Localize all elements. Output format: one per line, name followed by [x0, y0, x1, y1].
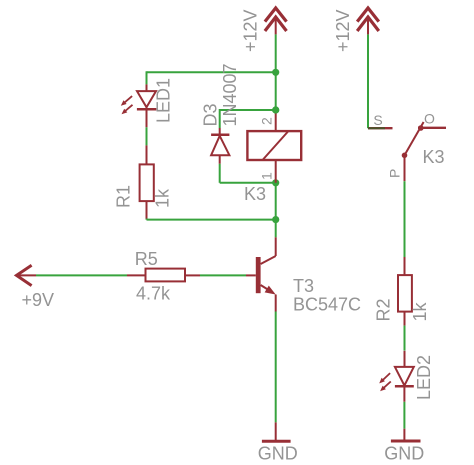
svg-text:R5: R5 — [135, 249, 158, 269]
wire D3 bottom horizontal — [220, 182, 276, 184]
svg-text:K3: K3 — [244, 184, 266, 204]
svg-text:P: P — [387, 169, 403, 178]
relay contact K3 (S/O/P) — [368, 122, 446, 181]
wire collector — [275, 220, 277, 238]
resistor R2 — [398, 257, 412, 326]
wire LED1 to R1 — [146, 127, 148, 145]
junction D3 node overdraw — [272, 106, 279, 113]
wire +9V to R5 — [36, 274, 127, 276]
svg-text:T3: T3 — [293, 276, 314, 296]
svg-text:2: 2 — [259, 117, 275, 125]
ground GND (center) — [262, 422, 291, 441]
svg-text:+12V: +12V — [241, 9, 261, 52]
LED LED1 — [121, 84, 157, 127]
wire D3 top drop — [219, 109, 221, 128]
svg-text:LED1: LED1 — [154, 78, 174, 123]
svg-text:1N4007: 1N4007 — [220, 63, 240, 126]
LED LED2 — [379, 351, 414, 402]
svg-text:BC547C: BC547C — [293, 295, 361, 315]
svg-text:+12V: +12V — [333, 9, 353, 52]
svg-text:D3: D3 — [201, 103, 221, 126]
junction top node — [272, 69, 279, 76]
wire D3 bottom drop — [219, 164, 221, 183]
wire right +12V down to S — [367, 34, 369, 128]
wire LED2 to GND — [403, 402, 405, 429]
svg-text:1: 1 — [259, 172, 275, 180]
resistor R5 — [127, 269, 200, 282]
supply +12V arrow (right) — [357, 8, 379, 34]
wire pin1 to collector node — [275, 183, 277, 220]
svg-text:R2: R2 — [374, 298, 394, 321]
wire top horizontal to LED1 — [147, 71, 276, 73]
relay coil K3 — [247, 113, 301, 183]
svg-text:O: O — [424, 110, 435, 126]
wire LED1 top drop — [146, 71, 148, 84]
svg-text:+9V: +9V — [22, 290, 55, 310]
wire D3 node horizontal — [220, 109, 276, 111]
junction collector node — [272, 216, 279, 223]
svg-text:K3: K3 — [423, 147, 445, 167]
svg-text:GND: GND — [384, 444, 424, 464]
wire +12V stem to top node — [275, 34, 277, 72]
supply +12V arrow (center) — [265, 8, 287, 34]
svg-text:GND: GND — [258, 443, 298, 463]
svg-text:1k: 1k — [410, 301, 430, 321]
resistor R1 — [140, 145, 154, 219]
transistor T3 — [246, 237, 276, 311]
svg-text:1k: 1k — [153, 188, 173, 208]
ground GND (right) — [391, 429, 421, 441]
wire pole to R2 — [404, 181, 406, 257]
diode D3 1N4007 — [211, 128, 229, 164]
wire R1 bottom to collector node — [147, 219, 276, 221]
svg-text:R1: R1 — [114, 185, 134, 208]
wire R5 to base — [200, 274, 246, 276]
junction relay pin1 node — [272, 179, 279, 186]
junction D3 node — [272, 106, 279, 113]
wire emitter to GND — [275, 312, 277, 423]
wire R2 to LED2 — [404, 326, 406, 351]
svg-text:4.7k: 4.7k — [136, 284, 171, 304]
svg-text:S: S — [373, 112, 382, 128]
wire top node to D3 node — [275, 72, 277, 110]
net arrow +9V — [17, 265, 37, 285]
svg-text:LED2: LED2 — [414, 355, 434, 400]
